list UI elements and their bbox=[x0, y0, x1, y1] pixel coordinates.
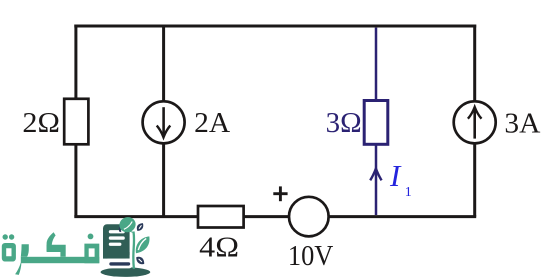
svg-text:3A: 3A bbox=[504, 108, 540, 140]
svg-text:10V: 10V bbox=[288, 241, 334, 272]
svg-text:2Ω: 2Ω bbox=[22, 107, 60, 139]
svg-text:4Ω: 4Ω bbox=[199, 232, 239, 264]
svg-text:3Ω: 3Ω bbox=[326, 107, 362, 139]
svg-text:2A: 2A bbox=[194, 107, 230, 139]
svg-text:I: I bbox=[389, 158, 402, 193]
svg-text:1: 1 bbox=[405, 185, 412, 200]
